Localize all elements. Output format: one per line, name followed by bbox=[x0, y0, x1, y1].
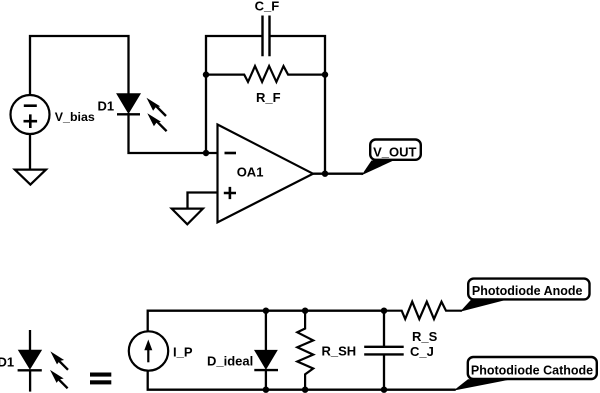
light arrow 1 into D1 bbox=[147, 98, 167, 116]
photodiode D1 (top) bbox=[98, 94, 141, 114]
wire output bbox=[313, 173, 363, 175]
junction node at inverting input bbox=[203, 150, 209, 156]
svg-text:Photodiode Cathode: Photodiode Cathode bbox=[471, 363, 593, 377]
capacitor C_F bbox=[255, 0, 280, 56]
junction node at output bbox=[322, 171, 328, 177]
svg-text:Photodiode Anode: Photodiode Anode bbox=[472, 284, 583, 298]
photodiode D1 (bottom symbol) bbox=[0, 330, 42, 392]
svg-text:I_P: I_P bbox=[173, 344, 193, 359]
capacitor C_J bbox=[364, 311, 434, 390]
net flag Photodiode Cathode bbox=[454, 357, 597, 391]
wire feedback left vertical bbox=[206, 36, 263, 153]
junction node top rail at C_J bbox=[381, 308, 387, 314]
junction node bottom rail at R_SH bbox=[302, 387, 308, 393]
junction node bottom rail at D_ideal bbox=[263, 387, 269, 393]
resistor R_S bbox=[384, 302, 462, 344]
resistor R_F bbox=[206, 66, 325, 105]
light arrow 1 into bottom D1 bbox=[50, 351, 68, 369]
op-amp OA1 bbox=[218, 125, 314, 223]
net flag V_OUT bbox=[362, 140, 421, 176]
svg-text:V_OUT: V_OUT bbox=[373, 145, 416, 160]
junction node at R_F right bbox=[322, 71, 328, 77]
junction node top rail at D_ideal bbox=[263, 308, 269, 314]
wire equivalent-circuit bottom rail bbox=[148, 371, 456, 390]
light arrow 2 into D1 bbox=[147, 113, 166, 131]
wire non-inverting input to ground bbox=[188, 193, 218, 209]
wire V_bias to ground bbox=[29, 134, 31, 170]
equals sign bbox=[90, 373, 111, 385]
svg-text:C_F: C_F bbox=[255, 0, 280, 14]
current source I_P bbox=[129, 331, 193, 370]
svg-text:C_J: C_J bbox=[410, 344, 434, 359]
svg-text:D1: D1 bbox=[98, 99, 115, 114]
voltage source V_bias bbox=[11, 95, 95, 134]
wire equivalent-circuit top rail bbox=[148, 311, 384, 332]
wire top-left from V_bias to D1 bbox=[30, 36, 129, 95]
svg-text:R_S: R_S bbox=[412, 329, 438, 344]
ground (op-amp) bbox=[172, 209, 203, 225]
wire feedback top right bbox=[270, 36, 326, 174]
wire D1 to inverting node bbox=[129, 113, 218, 153]
light arrow 2 into bottom D1 bbox=[50, 370, 68, 388]
svg-text:V_bias: V_bias bbox=[55, 110, 95, 124]
diode D_ideal bbox=[207, 311, 278, 390]
junction node at R_F left bbox=[203, 71, 209, 77]
svg-text:D1: D1 bbox=[0, 355, 14, 370]
svg-text:OA1: OA1 bbox=[237, 165, 264, 180]
ground (left) bbox=[15, 170, 46, 185]
junction node bottom rail at C_J bbox=[381, 387, 387, 393]
net flag Photodiode Anode bbox=[460, 279, 590, 312]
junction node top rail at R_SH bbox=[302, 308, 308, 314]
svg-text:D_ideal: D_ideal bbox=[207, 353, 253, 368]
svg-text:R_SH: R_SH bbox=[322, 343, 357, 358]
svg-text:R_F: R_F bbox=[256, 90, 281, 105]
resistor R_SH bbox=[297, 311, 356, 390]
